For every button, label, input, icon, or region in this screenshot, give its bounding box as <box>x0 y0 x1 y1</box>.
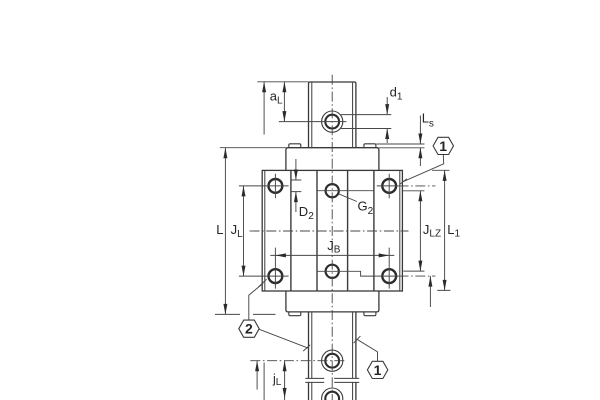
top-right hole crosshair <box>377 174 399 198</box>
G2 bottom hole center line with offset step <box>317 271 377 276</box>
balloon 1 bottom leader <box>357 339 378 361</box>
top end plate lube bump right <box>364 144 376 148</box>
rail top segment inner edge lines <box>312 83 353 148</box>
carriage fixing hole bottom-left <box>269 269 283 283</box>
balloon 2 leader to rail edge <box>259 329 309 348</box>
bottom-left hole crosshair <box>239 248 289 289</box>
top-right hole centerline extension (dash-dot) <box>399 185 436 187</box>
dimension J_LZ line with arrows <box>419 191 421 271</box>
G2 top hole center line <box>318 190 374 192</box>
dimension d_1 line with outside arrows <box>386 97 388 143</box>
bottom rail hole centerline (dash-dot) <box>250 360 344 362</box>
rail bottom segment inner edge lines <box>312 312 353 400</box>
plain dimension line at image bottom <box>263 363 265 400</box>
carriage fixing hole top-left <box>269 179 283 193</box>
dimension j_L line with arrows <box>284 361 286 400</box>
dimension L line with arrows <box>224 148 226 315</box>
bottom-right hole crosshair <box>377 248 399 289</box>
rail hole bottom-2 (inner ring) <box>325 392 339 400</box>
svg-text:2: 2 <box>245 321 253 337</box>
dimension L extension line top <box>220 147 286 149</box>
rail hole bottom-1 (outer circle) <box>322 350 343 371</box>
lube port hole G2 bottom <box>326 265 339 278</box>
carriage bottom end plate <box>286 291 379 312</box>
carriage body internal division lines <box>291 170 374 291</box>
rail hole bottom-2 clipped at image edge (outer circle) <box>322 388 343 400</box>
dimension d_1 extension ticks (hole tangents) <box>341 115 391 129</box>
balloon 1 bottom hexagon <box>367 361 387 378</box>
dimension L_s line with outside arrows <box>419 116 421 167</box>
carriage transverse centerline (dash-dot) <box>250 230 409 232</box>
dimension a_L extension line top (rail top level) <box>257 81 308 83</box>
rail hole top (inner counterbore ring) <box>325 115 339 129</box>
bottom-right hole centerline extension (dash-dot) <box>399 275 436 277</box>
half dimension line at rail top (arrow up) <box>263 82 265 135</box>
balloon 1 top-right leader tick <box>400 179 407 184</box>
dimension L_1 extension lines <box>432 170 450 290</box>
svg-text:1: 1 <box>439 138 447 154</box>
dimension L_s extension lines (bump top and plate top) <box>376 144 424 148</box>
dimension J_B extension segments done via hole crosshairs; dimension line <box>270 254 394 256</box>
rail vertical centerline (dash-dot) <box>331 75 333 400</box>
carriage body inner edge lines <box>265 170 400 291</box>
balloon 2 leader to carriage edge <box>249 283 263 320</box>
balloon 2 hexagon <box>239 320 259 337</box>
dimension a_L line with arrows <box>283 82 285 122</box>
lube port hole G2 top <box>326 184 339 197</box>
dimension J_LZ extension lines <box>403 191 425 271</box>
dimension a_L extension line at hole center <box>279 121 347 123</box>
rail hole bottom-1 (inner ring) <box>325 354 339 368</box>
balloon 2 leader tick at rail edge <box>303 345 310 351</box>
carriage body outer rectangle <box>262 170 402 291</box>
balloon 1 top-right leader <box>403 155 443 182</box>
bottom end plate lube bump right <box>364 312 376 316</box>
dimension J_L line with arrows <box>243 186 245 276</box>
rail top segment outline <box>309 82 356 148</box>
bottom end plate lube bump left <box>289 312 301 316</box>
balloon 1 top-right hexagon <box>433 137 453 154</box>
dimension L_1 line with arrows <box>444 170 446 290</box>
top end plate lube bump left <box>289 144 301 148</box>
dimension D_2 ticks (hole bore tangents) <box>291 180 302 192</box>
half dimension arrow pointing up at bottom-right hole line <box>429 276 431 307</box>
half dimension arrow pointing up at rail hole line <box>256 361 258 390</box>
leader line for G_2 <box>339 194 357 202</box>
dimension D_2 line with outside arrows <box>295 159 297 212</box>
balloon 1 bottom leader tick <box>354 336 361 343</box>
carriage fixing hole top-right <box>382 179 396 193</box>
rail hole top (outer circle) <box>322 111 343 132</box>
top-left hole crosshair <box>239 174 289 198</box>
rail break lines <box>305 378 359 382</box>
svg-text:1: 1 <box>374 362 382 378</box>
carriage top end plate <box>286 148 379 171</box>
rail bottom segment outer edges <box>309 312 356 400</box>
balloon 2 leader tick at carriage edge <box>259 279 267 287</box>
svg-text:L: L <box>216 222 223 237</box>
dimension L extension line bottom (with gap for balloon leader) <box>215 313 276 315</box>
carriage fixing hole bottom-right <box>382 269 396 283</box>
